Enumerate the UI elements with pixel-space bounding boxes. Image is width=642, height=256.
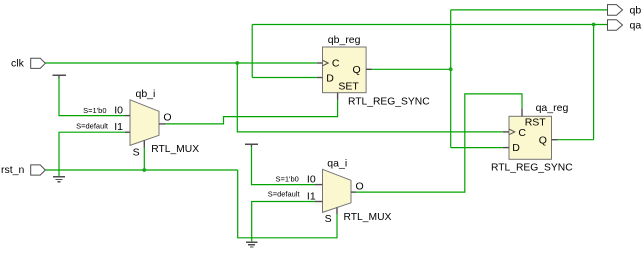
pin Q of qa_reg (539, 134, 558, 146)
pin I0 of qb_i (114, 105, 130, 117)
wire VCC2 to qa_i I0 (252, 147, 316, 185)
svg-text:RTL_MUX: RTL_MUX (344, 212, 392, 223)
pin C of qb_reg (clock) (317, 58, 340, 70)
output port qa (608, 20, 623, 31)
pin S of qa_i (325, 208, 337, 225)
pin D of qa_reg (503, 142, 520, 154)
svg-text:rst_n: rst_n (1, 164, 25, 176)
wire qb_i I1 to GND1 (59, 132, 125, 176)
output port qb (608, 5, 623, 16)
flip-flop qa_reg (509, 116, 552, 159)
svg-text:I1: I1 (307, 191, 316, 203)
vcc VCC2 (const 1 to qa_i I0) (245, 143, 258, 145)
pin O of qb_i (159, 112, 172, 124)
svg-text:S=default: S=default (268, 190, 301, 199)
svg-text:S=1'b0: S=1'b0 (83, 106, 106, 115)
pin O of qa_i (351, 180, 364, 192)
svg-text:S=default: S=default (76, 121, 109, 130)
svg-text:S: S (133, 146, 140, 158)
svg-text:Q: Q (539, 134, 547, 146)
svg-text:qb_reg: qb_reg (328, 34, 361, 46)
svg-text:S=1'b0: S=1'b0 (275, 175, 298, 184)
svg-text:C: C (518, 127, 526, 139)
vcc VCC1 (const 1 to qb_i I0) (53, 74, 66, 76)
ground GND2 (const 0 to qa_i I1) (246, 242, 258, 247)
svg-text:I1: I1 (114, 121, 123, 133)
svg-text:RTL_REG_SYNC: RTL_REG_SYNC (348, 97, 430, 108)
pin D of qb_reg (317, 72, 335, 84)
wire qb_i O to qb_reg SET (166, 100, 338, 124)
junction qa net at (593.6,24.5) (592, 23, 596, 27)
svg-text:qb_i: qb_i (136, 88, 156, 100)
wire qa_i O to qa_reg RST (356, 94, 522, 192)
svg-text:I0: I0 (307, 174, 316, 186)
pin S of qb_i (133, 140, 145, 158)
input port rst_n (31, 165, 46, 175)
svg-text:D: D (326, 72, 334, 84)
mux qb_i (130, 100, 159, 146)
wire VCC1 to qb_i I0 (59, 78, 125, 116)
svg-text:RTL_MUX: RTL_MUX (151, 144, 199, 155)
pin Q of qb_reg (353, 64, 372, 76)
junction qb net at (450.7,69.3) (449, 67, 453, 71)
pin RST of qa_reg (522, 108, 546, 128)
svg-text:qb: qb (630, 4, 642, 16)
wire clk net (45, 63, 503, 132)
pin I0 of qa_i (307, 174, 323, 186)
svg-text:D: D (512, 142, 520, 154)
flip-flop qb_reg (323, 47, 367, 93)
wire rst_n net (45, 147, 337, 238)
pin SET of qb_reg (338, 81, 360, 100)
svg-text:RST: RST (525, 117, 547, 129)
svg-text:I0: I0 (114, 105, 123, 117)
svg-text:RTL_REG_SYNC: RTL_REG_SYNC (491, 162, 573, 173)
svg-text:clk: clk (11, 58, 25, 70)
svg-text:qa: qa (630, 20, 642, 32)
svg-text:O: O (163, 112, 171, 124)
wire qa_i I1 to GND2 (252, 202, 315, 242)
svg-text:C: C (332, 58, 340, 70)
input port clk (31, 58, 46, 68)
junction rst_n net at (144,170) (142, 168, 146, 172)
svg-text:S: S (325, 213, 332, 225)
pin I1 of qa_i (307, 191, 323, 203)
svg-text:Q: Q (353, 64, 361, 76)
ground GND1 (const 0 to qb_i I1) (53, 177, 65, 182)
wire qb net (372, 10, 608, 148)
mux qa_i (323, 169, 352, 212)
pin I1 of qb_i (114, 121, 130, 133)
wire qa net (252, 25, 607, 140)
svg-text:O: O (356, 180, 364, 192)
svg-text:SET: SET (338, 81, 359, 93)
svg-text:qa_i: qa_i (327, 157, 347, 169)
junction clk net at (237,63) (235, 61, 239, 65)
pin C of qa_reg (clock) (503, 127, 527, 139)
svg-text:qa_reg: qa_reg (536, 102, 569, 114)
